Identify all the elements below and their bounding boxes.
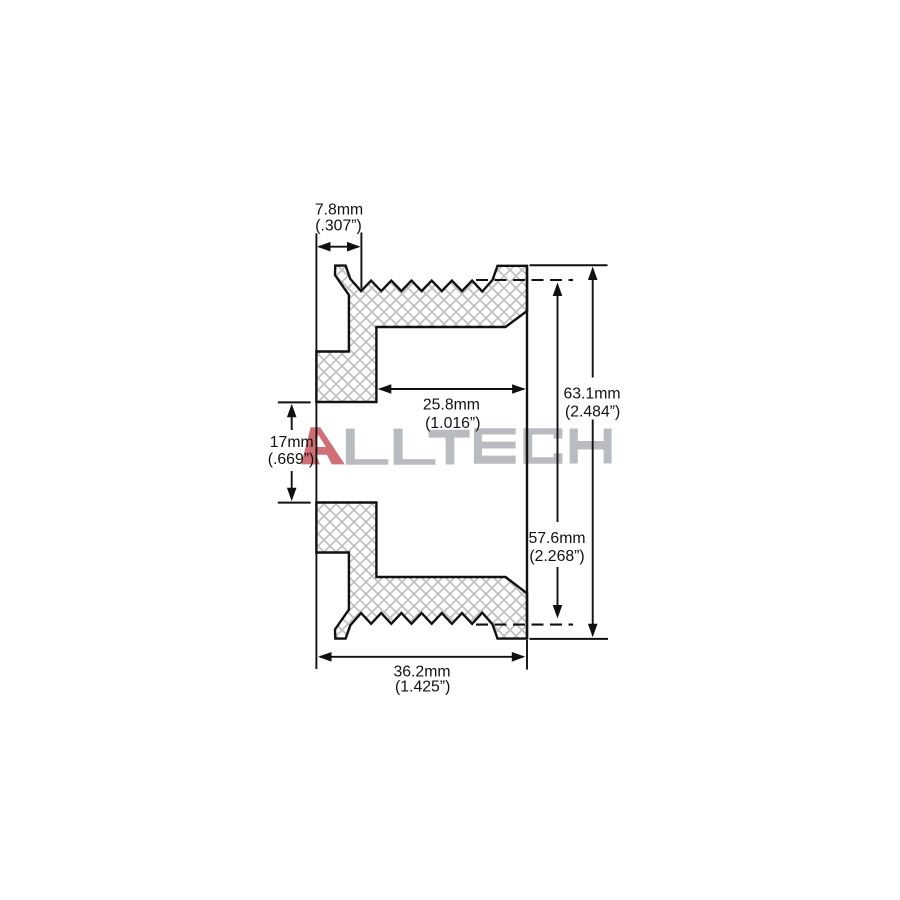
svg-text:(2.268”): (2.268”) (529, 548, 584, 565)
watermark letter A (red) (301, 427, 345, 464)
bottom extension line (63.1mm) (530, 638, 609, 640)
36.2mm right extension (526, 640, 528, 670)
right extension line of 7.8mm (360, 233, 362, 289)
top dashed line (57.6mm) (476, 279, 573, 281)
svg-text:17mm: 17mm (270, 434, 314, 451)
watermark letter T (429, 430, 470, 465)
watermark letter L (394, 429, 436, 465)
watermark letter C (523, 428, 562, 464)
watermark letter H (570, 429, 612, 464)
watermark letter E (474, 428, 516, 464)
svg-text:(2.484”): (2.484”) (565, 403, 620, 420)
57.6mm dimension line (557, 294, 559, 522)
pulley lower cross-section block (mirror) (316, 503, 527, 639)
left extension line (7.8mm / 36.2mm) (315, 233, 317, 669)
svg-text:57.6mm: 57.6mm (528, 530, 585, 547)
63.1mm dimension line (592, 277, 594, 378)
17mm dimension ticks (278, 401, 311, 403)
25.8mm dimension arrow (380, 388, 524, 390)
bottom dashed line (57.6mm) (476, 624, 573, 626)
svg-text:(1.016”): (1.016”) (425, 415, 480, 432)
watermark letter L (346, 429, 389, 465)
36.2mm dimension arrow (320, 656, 523, 658)
svg-text:7.8mm: 7.8mm (315, 202, 363, 219)
svg-text:(.307”): (.307”) (315, 217, 362, 234)
top extension line (63.1mm) (530, 264, 608, 266)
right side line of section (526, 266, 528, 639)
svg-text:63.1mm: 63.1mm (563, 386, 620, 403)
svg-text:(1.425”): (1.425”) (395, 678, 450, 695)
7.8mm dimension arrow (319, 246, 359, 248)
svg-text:(.669”): (.669”) (268, 451, 315, 468)
pulley upper cross-section block (316, 266, 527, 402)
svg-text:25.8mm: 25.8mm (423, 397, 480, 414)
17mm dimension arrows (291, 414, 293, 430)
watermark ALLTECH (301, 427, 611, 464)
